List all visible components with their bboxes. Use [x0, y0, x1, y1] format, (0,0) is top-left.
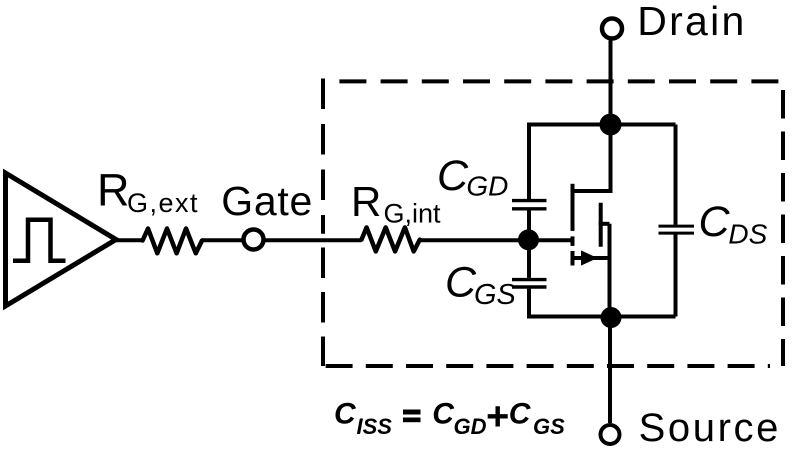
svg-text:C: C: [432, 398, 455, 431]
svg-text:G,int: G,int: [384, 198, 442, 228]
svg-text:+: +: [486, 394, 509, 438]
svg-text:GS: GS: [474, 279, 517, 311]
svg-text:ISS: ISS: [357, 414, 393, 439]
svg-text:GD: GD: [466, 171, 508, 202]
svg-text:R: R: [97, 165, 130, 216]
svg-text:G,ext: G,ext: [127, 188, 199, 218]
svg-text:R: R: [351, 178, 381, 225]
svg-text:C: C: [334, 398, 357, 431]
svg-text:Source: Source: [639, 406, 781, 450]
svg-text:GS: GS: [533, 414, 565, 439]
svg-text:Gate: Gate: [221, 178, 313, 224]
svg-text:C: C: [445, 258, 477, 306]
svg-text:C: C: [699, 198, 731, 246]
svg-text:Drain: Drain: [637, 0, 746, 44]
svg-text:C: C: [509, 398, 532, 431]
svg-text:GD: GD: [454, 414, 487, 439]
svg-text:C: C: [437, 152, 469, 200]
svg-text:DS: DS: [728, 219, 767, 250]
